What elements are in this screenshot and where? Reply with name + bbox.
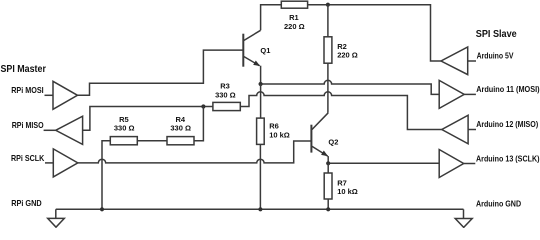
svg-text:RPi GND: RPi GND bbox=[11, 198, 42, 208]
wire R3 right to Arduino 12 (hops over R6 and R2 lines) bbox=[240, 92, 441, 130]
node R6 ground junction bbox=[258, 207, 262, 211]
resistor R3 bbox=[213, 102, 240, 110]
svg-text:Q2: Q2 bbox=[328, 137, 338, 146]
node Q1 emitter junction bbox=[259, 82, 263, 86]
resistor R6 bbox=[257, 118, 265, 144]
ground RPi bbox=[55, 209, 57, 218]
svg-text:SPI Master: SPI Master bbox=[1, 64, 46, 75]
node MISO divider junction bbox=[201, 104, 205, 108]
svg-text:220 Ω: 220 Ω bbox=[284, 22, 305, 31]
wire R5 left lead down to ground rail bbox=[102, 141, 110, 210]
transistor Q1 bbox=[243, 30, 260, 84]
buffer Arduino 11 (MOSI) bbox=[439, 80, 464, 108]
wire ground rail bbox=[56, 208, 464, 210]
wire Q2 emitter node to Arduino 13 bbox=[328, 162, 439, 164]
resistor R5 bbox=[110, 137, 137, 145]
node R5 ground junction bbox=[100, 207, 104, 211]
svg-text:SPI Slave: SPI Slave bbox=[476, 29, 517, 40]
wire top rail right to Arduino 5V buffer bbox=[308, 5, 441, 61]
wire Q1 emitter to Arduino 11 (hop over R2 line) bbox=[261, 80, 440, 94]
svg-text:Arduino 12 (MISO): Arduino 12 (MISO) bbox=[476, 119, 538, 129]
svg-text:R3: R3 bbox=[220, 81, 230, 90]
svg-text:RPi SCLK: RPi SCLK bbox=[11, 153, 44, 163]
buffer RPi MOSI bbox=[45, 94, 54, 96]
wire MISO buffer input from divider node bbox=[83, 107, 204, 131]
ground Arduino bbox=[463, 209, 465, 218]
svg-text:220 Ω: 220 Ω bbox=[337, 50, 358, 59]
wire R7 bottom lead bbox=[327, 199, 329, 209]
buffer RPi SCLK bbox=[45, 162, 53, 164]
svg-text:RPi MISO: RPi MISO bbox=[12, 120, 44, 130]
wire R4 right lead bbox=[194, 107, 203, 141]
wire R4 to R5 bbox=[137, 140, 167, 142]
svg-text:Arduino 13 (SCLK): Arduino 13 (SCLK) bbox=[476, 153, 540, 163]
svg-text:330 Ω: 330 Ω bbox=[170, 124, 191, 133]
buffer Arduino 12 (MISO) bbox=[442, 115, 468, 144]
buffer Arduino 5V bbox=[441, 47, 468, 75]
wire MOSI buffer to Q1 base bbox=[78, 50, 244, 95]
buffer RPi MISO bbox=[44, 129, 56, 131]
resistor R2 bbox=[324, 37, 332, 63]
wire R7 top lead bbox=[327, 163, 329, 173]
svg-text:Q1: Q1 bbox=[260, 46, 270, 55]
node 5V/R2 junction bbox=[326, 3, 330, 7]
wire R2 bottom lead to Q2 collector bbox=[327, 63, 329, 113]
wire 5V rail left (Q1 collector up to top rail) bbox=[261, 5, 282, 31]
node Q2 emitter junction bbox=[326, 161, 330, 165]
resistor R7 bbox=[324, 173, 332, 199]
svg-text:Arduino GND: Arduino GND bbox=[476, 198, 521, 208]
svg-text:R6: R6 bbox=[269, 122, 279, 131]
wire SCLK buffer to Q2 base (hops over R5 and R6 lines) bbox=[78, 141, 311, 163]
svg-text:Arduino 5V: Arduino 5V bbox=[477, 51, 514, 61]
resistor R1 bbox=[281, 1, 307, 8]
svg-text:10 kΩ: 10 kΩ bbox=[269, 131, 290, 140]
svg-text:R1: R1 bbox=[289, 13, 299, 22]
svg-text:330 Ω: 330 Ω bbox=[215, 90, 236, 99]
resistor R4 bbox=[167, 137, 194, 145]
svg-text:Arduino 11 (MOSI): Arduino 11 (MOSI) bbox=[476, 84, 540, 94]
svg-text:330 Ω: 330 Ω bbox=[114, 124, 135, 133]
wire R2 top lead bbox=[327, 5, 329, 37]
wire R6 top lead bbox=[260, 84, 262, 118]
wire R6 bottom lead to ground rail bbox=[259, 144, 261, 209]
node R7 ground junction bbox=[326, 207, 330, 211]
buffer Arduino 13 (SCLK) bbox=[439, 150, 464, 178]
svg-text:RPi MOSI: RPi MOSI bbox=[11, 85, 44, 95]
transistor Q2 bbox=[311, 113, 328, 164]
wire R3 left lead bbox=[203, 106, 213, 108]
svg-text:10 kΩ: 10 kΩ bbox=[337, 187, 358, 196]
